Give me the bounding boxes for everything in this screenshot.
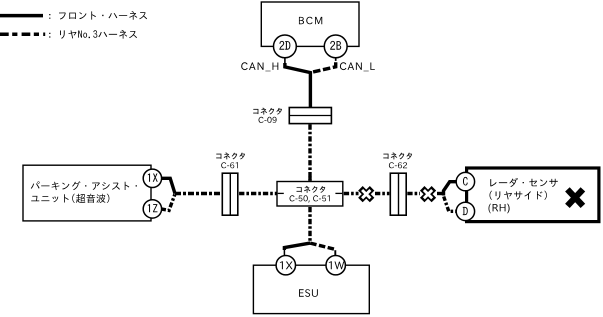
cut mark X2 on wire (422, 188, 434, 200)
BCM pin 2D (274, 35, 297, 58)
ESU label (299, 289, 318, 297)
wire dashed from pin 1Z to left junction (161, 195, 175, 211)
wire dashed from left junction to connector C-61 (175, 192, 221, 195)
wire CAN_L: thin dashed stub below pin 2B (335, 58, 337, 63)
wire dashed from C-62 to cut mark X2 (407, 192, 420, 195)
wire solid from right junction to radar pin C (444, 182, 457, 196)
net label CAN_L (340, 62, 375, 71)
connector C-50,C-51 designator (290, 195, 330, 202)
connector C-09 symbol (289, 108, 331, 124)
ESU pin 1W label (329, 261, 345, 269)
BCM unit box (261, 2, 359, 46)
wire dashed from ESU junction to pin 1W bend (310, 243, 335, 249)
connector C-09 label コネクタ (253, 108, 282, 115)
parking assist pin 1X (143, 169, 161, 187)
wire dashed from X1 to connector C-62 (375, 192, 389, 195)
legend label フロント・ハーネス (49, 11, 147, 20)
connector C-62 designator (389, 162, 407, 168)
cut mark X1 on wire (360, 188, 372, 200)
junction connector C-50,C-51 box (277, 182, 343, 207)
connector C-61 designator (221, 162, 238, 168)
legend: front harness solid line sample (0, 14, 43, 18)
net label CAN_H (241, 62, 278, 71)
ESU pin 1W (326, 256, 345, 275)
radar sensor label line2 (リヤサイド) (490, 191, 547, 200)
connector C-61 label コネクタ (216, 153, 245, 160)
radar sensor pin C (456, 172, 474, 190)
BCM pin 2B label (330, 41, 341, 50)
parking assist unit box (23, 165, 151, 221)
BCM label (299, 17, 322, 25)
inoperative mark: big X inside radar sensor box (567, 189, 583, 206)
radar sensor unit box (bold border) (467, 168, 599, 222)
wire stub above C-50 box (308, 177, 311, 181)
parking assist pin 1Z (143, 200, 161, 218)
wire dashed from C-61 to junction connector C-50/C-51 (239, 192, 276, 195)
BCM pin 2D label (279, 41, 290, 50)
wire CAN_L: dashed from BCM pin 2B bend to junction (311, 62, 336, 72)
wire thin stub inside C-50 box left (278, 192, 284, 194)
parking assist pin 1X label (148, 174, 158, 182)
wire dashed from C-50 box to cut mark X1 (344, 192, 359, 195)
radar sensor label line1 レーダ・センサ (490, 178, 558, 187)
connector C-50 label コネクタ (297, 186, 326, 193)
ESU pin 1X (276, 256, 295, 275)
parking assist label line2 ユニット(超音波) (31, 194, 109, 203)
legend label リヤNo.3ハーネス (49, 30, 137, 39)
wire solid from ESU junction to pin 1X bend (284, 243, 310, 250)
ESU pin 1X label (280, 261, 293, 269)
wire stub dash down to ESU pin 1W (334, 250, 336, 255)
parking assist pin 1Z label (148, 204, 158, 212)
parking assist label line1 パーキング・アシスト・ (31, 181, 137, 190)
wire CAN_H: thin stub below pin 2D (284, 58, 286, 65)
wire solid from pin 1X to left junction (161, 178, 175, 193)
wire thin stub down to ESU pin 1X (283, 249, 285, 256)
radar sensor pin C label (463, 177, 468, 186)
connector C-62 label コネクタ (383, 153, 412, 160)
wire thin stub inside C-50 box right (335, 192, 342, 194)
wire dashed from C-50 box down to ESU junction (308, 207, 311, 243)
BCM pin 2B (324, 35, 347, 58)
wire dashed from C-09 down to junction connector C-50 (308, 124, 311, 180)
connector C-61 symbol (222, 173, 238, 215)
radar sensor label line3 (RH) (489, 204, 510, 214)
ESU unit box (253, 265, 369, 313)
radar sensor pin D label (463, 207, 468, 215)
wire dash from X2 to right junction (437, 192, 442, 195)
connector C-62 symbol (390, 173, 406, 215)
legend: rear No.3 harness dashed line sample (0, 33, 45, 37)
radar sensor pin D (456, 202, 474, 220)
wire CAN_H: solid from BCM pin 2D bend to junction and down to C-09 (285, 63, 311, 108)
connector C-09 designator (258, 117, 276, 123)
wire dashed from right junction to radar pin D (444, 197, 457, 212)
